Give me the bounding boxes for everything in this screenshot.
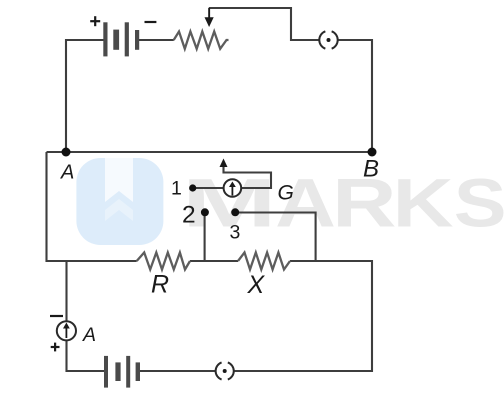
svg-text:A: A xyxy=(60,161,74,183)
svg-text:A: A xyxy=(82,324,96,346)
svg-text:K: K xyxy=(393,165,454,242)
svg-text:S: S xyxy=(454,165,504,242)
svg-text:3: 3 xyxy=(230,222,241,244)
svg-text:G: G xyxy=(278,181,294,204)
svg-text:X: X xyxy=(247,271,266,299)
svg-text:R: R xyxy=(151,270,169,298)
svg-text:2: 2 xyxy=(182,201,196,228)
svg-text:B: B xyxy=(363,156,379,183)
svg-text:1: 1 xyxy=(171,177,182,199)
